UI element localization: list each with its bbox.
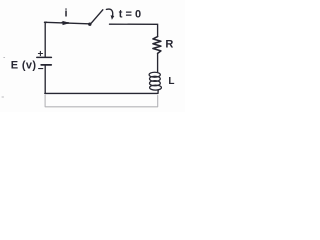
svg-text:L: L <box>168 76 174 87</box>
svg-text:E (v): E (v) <box>11 60 37 72</box>
svg-text:i: i <box>65 8 68 20</box>
svg-text:t = 0: t = 0 <box>119 8 141 20</box>
svg-text:R: R <box>165 39 173 51</box>
